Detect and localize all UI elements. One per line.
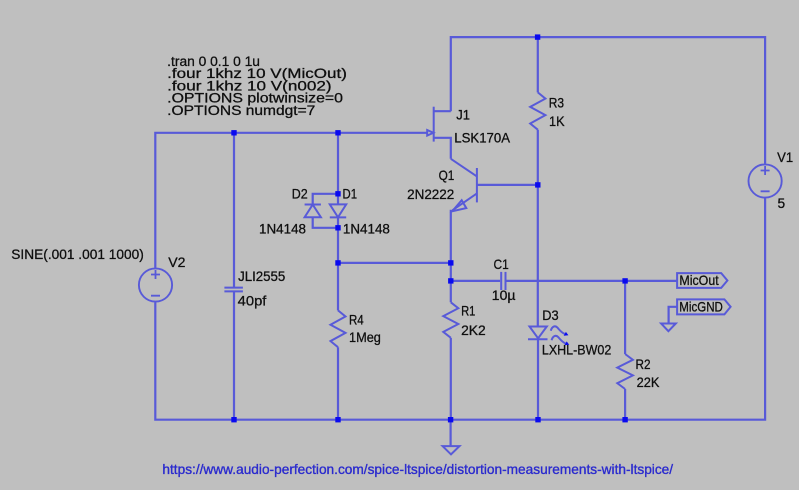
svg-text:https://www.audio-perfection.c: https://www.audio-perfection.com/spice-l… [162, 461, 673, 477]
wire J1 drain vertical, top rail, right rail upper [451, 37, 765, 164]
wire R1 bottom lead [450, 338, 452, 420]
transistor Q1 [451, 159, 477, 211]
svg-text:2K2: 2K2 [461, 323, 486, 338]
wire emitter vertical [450, 210, 452, 302]
svg-text:22K: 22K [637, 375, 660, 390]
diode D2 [305, 205, 321, 218]
svg-text:D1: D1 [343, 186, 358, 201]
diode D3 LED [528, 326, 569, 345]
svg-text:1N4148: 1N4148 [343, 221, 390, 236]
ground MicGND flag [661, 324, 676, 332]
svg-text:MicGND: MicGND [679, 300, 723, 315]
node junction base R3 [535, 182, 540, 187]
svg-text:10µ: 10µ [492, 288, 516, 303]
wire R3 bottom lead [537, 130, 539, 185]
node junction bottom D3 [535, 417, 540, 422]
svg-text:MicOut: MicOut [679, 273, 718, 288]
capacitor JLI2555 [224, 288, 243, 292]
node junction emitter wire right [448, 260, 453, 265]
transistor J1 [427, 107, 434, 142]
ground [443, 446, 460, 454]
wire C1 left [451, 280, 500, 282]
node junction top rail R3 [535, 34, 540, 39]
wire R3 top lead [537, 37, 539, 92]
diode D1 [330, 204, 346, 217]
wire MicGND stub [669, 307, 678, 324]
wire base node vertical to D3 [537, 185, 539, 327]
node junction C1 right R2 [622, 278, 627, 283]
wire capacitor branch lower [233, 291, 235, 419]
wire Q1 base lead [477, 184, 538, 186]
node junction emitter wire left [335, 260, 340, 265]
wire D2 top link [313, 194, 338, 205]
svg-text:R2: R2 [636, 357, 651, 372]
svg-text:5: 5 [778, 196, 786, 211]
wire J1 drain horizontal [434, 110, 451, 112]
wire ground stub [450, 420, 452, 446]
svg-text:R4: R4 [349, 312, 364, 327]
resistor R2 [617, 354, 633, 389]
svg-text:1Meg: 1Meg [349, 330, 381, 345]
svg-text:LSK170A: LSK170A [454, 131, 511, 146]
svg-text:R1: R1 [461, 303, 475, 318]
svg-text:40pf: 40pf [238, 293, 267, 308]
wire emitter horizontal [338, 262, 451, 264]
node junction gate rail cap [231, 130, 236, 135]
wire D3 bottom lead [537, 339, 539, 419]
wire left rail lower, bottom rail, right rail lower [155, 198, 765, 419]
svg-text:V2: V2 [168, 255, 185, 270]
svg-text:1N4148: 1N4148 [259, 221, 306, 236]
wire R4 bottom lead [337, 347, 339, 419]
svg-text:D3: D3 [542, 308, 559, 323]
resistor R1 [443, 302, 458, 337]
port MicOut [677, 273, 727, 288]
voltage source V2 [139, 268, 172, 301]
node junction bottom cap [231, 417, 236, 422]
svg-text:2N2222: 2N2222 [407, 187, 454, 202]
wire C1 right to MicOut [506, 280, 677, 282]
wire R2 bottom lead [624, 389, 626, 420]
node junction bottom R2 [622, 417, 627, 422]
svg-text:Q1: Q1 [439, 168, 455, 183]
wire capacitor branch upper [233, 133, 235, 288]
node junction C1 left [448, 278, 453, 283]
wire R2 top lead [624, 281, 626, 354]
wire diode branch to R4 [337, 263, 339, 311]
wire gate rail and left rail upper [155, 133, 427, 268]
node junction diode top [335, 191, 340, 196]
capacitor C1 [501, 272, 505, 290]
node junction diode bottom [335, 225, 340, 230]
svg-text:D2: D2 [292, 186, 308, 201]
node junction bottom R4 [335, 417, 340, 422]
svg-text:J1: J1 [456, 107, 470, 122]
svg-text:R3: R3 [549, 95, 565, 110]
svg-text:LXHL-BW02: LXHL-BW02 [542, 343, 611, 358]
wire diode branch middle [337, 217, 339, 263]
svg-text:JLI2555: JLI2555 [238, 269, 286, 284]
port MicGND [677, 299, 731, 314]
voltage source V1 [749, 164, 782, 197]
node junction bottom ground [448, 417, 453, 422]
wire D2 bottom link [313, 217, 338, 228]
svg-text:C1: C1 [494, 257, 509, 272]
svg-text:1K: 1K [549, 114, 565, 129]
svg-text:.OPTIONS numdgt=7: .OPTIONS numdgt=7 [167, 103, 315, 118]
svg-text:V1: V1 [777, 150, 793, 165]
node junction gate rail diode [335, 130, 340, 135]
wire diode branch upper [337, 133, 339, 205]
svg-text:SINE(.001 .001 1000): SINE(.001 .001 1000) [11, 247, 144, 262]
resistor R3 [530, 92, 545, 129]
wire J1 source lead [434, 138, 451, 159]
resistor R4 [331, 310, 346, 347]
